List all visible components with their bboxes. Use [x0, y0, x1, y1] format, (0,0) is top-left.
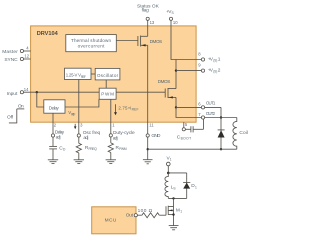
ground at RFREQ	[74, 160, 84, 164]
block 1.25-V VREF	[65, 68, 92, 79]
svg-text:13: 13	[150, 20, 155, 25]
wire junction to D1 branch	[168, 172, 186, 174]
svg-text:BOOT: BOOT	[181, 137, 192, 141]
svg-text:Input: Input	[7, 91, 18, 97]
node ground rail junction	[147, 148, 149, 150]
inductor LS	[165, 173, 177, 199]
svg-text:S: S	[173, 187, 176, 191]
svg-text:Off: Off	[7, 115, 14, 121]
svg-text:REF: REF	[132, 108, 139, 112]
wire VREF vertical from 1.25V box to pin 3	[78, 80, 80, 135]
ground at RPWM	[106, 160, 116, 164]
wire to pin 9	[176, 70, 202, 72]
wire DMOS2 source to OUT1	[175, 97, 177, 107]
block PWM	[99, 88, 116, 99]
svg-text:Duty-cycle: Duty-cycle	[113, 130, 135, 136]
svg-text:adj: adj	[83, 135, 88, 141]
IC U1 DRV104 chip body	[31, 26, 197, 122]
pin 3 terminal osc freq adj	[77, 122, 100, 141]
resistor RPWM	[108, 137, 127, 160]
pin 8 terminal +V(S)1	[198, 51, 221, 62]
svg-text:DMOS: DMOS	[150, 39, 163, 44]
wire delay box to PWM bottom	[65, 99, 99, 107]
svg-text:Master: Master	[2, 49, 18, 55]
node OUT2 junction	[220, 116, 222, 118]
svg-text:1: 1	[170, 158, 172, 162]
svg-text:2.75: 2.75	[118, 106, 128, 111]
svg-text:100 Ω: 100 Ω	[138, 208, 153, 214]
svg-text:4: 4	[26, 45, 29, 50]
svg-text:Delay: Delay	[49, 106, 60, 111]
svg-text:1: 1	[112, 122, 115, 127]
pin 12 terminal SYNC	[4, 54, 30, 64]
svg-text:(S): (S)	[213, 59, 217, 63]
svg-text:adj: adj	[56, 134, 61, 140]
svg-text:Oscillator: Oscillator	[97, 73, 119, 78]
wire bottom rail of LS/D1	[168, 197, 186, 199]
block delay	[44, 100, 65, 113]
svg-text:1: 1	[180, 210, 182, 214]
svg-text:Thermal shutdown: Thermal shutdown	[71, 38, 111, 43]
svg-text:PWM: PWM	[101, 91, 114, 96]
transistor DMOS1 status flag	[116, 36, 162, 47]
svg-text:Coil: Coil	[239, 130, 248, 136]
wire OUT1 to pin 6	[176, 106, 202, 108]
pin 7 terminal OUT2	[198, 111, 215, 119]
svg-text:MCU: MCU	[105, 218, 117, 224]
wire oscillator to PWM	[105, 80, 107, 88]
wire 1.25V box to oscillator	[91, 73, 95, 75]
inductor coil load	[233, 118, 248, 150]
diode flyback	[218, 130, 225, 138]
svg-text:11: 11	[149, 122, 154, 127]
transistor M1	[166, 198, 182, 225]
pin 10 terminal +VS	[166, 9, 178, 25]
svg-text:SYNC: SYNC	[4, 57, 18, 63]
wire V1 to junction	[167, 166, 169, 173]
svg-text:adj: adj	[113, 135, 118, 141]
svg-text:REF: REF	[81, 75, 86, 79]
wire gate to resistor	[159, 214, 166, 216]
pin 14 terminal Input	[7, 87, 29, 97]
svg-text:(S): (S)	[213, 70, 217, 74]
pin 5 terminal CBOOT	[182, 122, 188, 131]
pin 6 terminal OUT1	[198, 101, 216, 110]
svg-text:12: 12	[24, 54, 29, 59]
switch On/Off	[7, 104, 24, 123]
wire pin 13 drain vertical	[147, 20, 149, 36]
svg-text:3: 3	[80, 122, 83, 127]
wire ground rail to coil	[148, 148, 237, 150]
ground at CD	[48, 160, 58, 164]
svg-text:M: M	[176, 208, 180, 214]
pin 4 terminal Master	[2, 45, 30, 55]
resistor RFREQ	[76, 137, 97, 160]
capacitor CD	[49, 137, 66, 160]
terminal V1	[167, 156, 172, 166]
svg-text:PWM: PWM	[119, 147, 127, 151]
node M1 drain junction	[172, 197, 174, 199]
wire PWM to DMOS2 gate	[116, 91, 165, 93]
ground at pin 11	[143, 160, 153, 164]
wire resistor to MCU out	[137, 214, 142, 216]
svg-text:2: 2	[54, 122, 57, 127]
arrow IREF current direction at pin 3	[74, 124, 76, 127]
svg-text:overcurrent: overcurrent	[78, 43, 106, 48]
svg-text:GND: GND	[151, 133, 161, 139]
capacitor CBOOT	[177, 119, 204, 141]
terminal MCU out	[134, 214, 137, 217]
wire DMOS1 source to GND rail	[147, 45, 149, 134]
svg-text:1: 1	[218, 56, 221, 62]
svg-text:OUT1: OUT1	[206, 101, 216, 106]
wire OUT2 internal L to pin 7	[176, 107, 202, 117]
svg-text:2: 2	[218, 68, 221, 74]
wire input junction to delay box	[37, 92, 44, 107]
pin 1 terminal duty-cycle adj	[109, 99, 135, 141]
diode D1	[183, 173, 197, 199]
svg-text:6: 6	[198, 101, 201, 106]
svg-text:9: 9	[198, 62, 201, 67]
wire OUT1 external	[205, 106, 222, 108]
svg-text:10: 10	[173, 20, 178, 25]
block oscillator	[95, 68, 120, 80]
svg-text:S: S	[172, 11, 175, 15]
svg-text:REF: REF	[71, 112, 75, 116]
pin 11 terminal GND	[146, 122, 161, 138]
pin 2 terminal delay adj	[51, 113, 64, 140]
wire pin 10 +VS down and over to pin 8	[171, 20, 202, 59]
svg-text:14: 14	[24, 87, 29, 92]
svg-text:7: 7	[198, 112, 201, 117]
pin 13 terminal	[137, 4, 160, 25]
wire pins 8-9 vertical link	[175, 60, 177, 89]
svg-text:8: 8	[198, 51, 201, 56]
svg-text:D: D	[63, 148, 66, 152]
wire OUT1 vertical through flyback diode	[220, 107, 222, 149]
wire pin 11 to ground rail	[147, 137, 149, 149]
transistor DMOS2 output	[158, 79, 176, 99]
ground at M1 source	[169, 226, 179, 230]
block thermal shutdown overcurrent	[66, 35, 117, 52]
svg-text:OUT2: OUT2	[206, 111, 216, 116]
node diode-rail junction	[220, 148, 222, 150]
svg-text:5: 5	[185, 122, 188, 127]
node input junction	[36, 91, 38, 93]
svg-text:1: 1	[195, 185, 197, 189]
wire input rail to PWM gate row	[23, 91, 99, 93]
node V1 junction	[167, 172, 170, 175]
node OUT1 junction	[175, 106, 177, 108]
node pins 8/9 junction	[175, 69, 177, 71]
MCU block	[92, 207, 136, 234]
svg-text:Out: Out	[126, 212, 134, 218]
svg-text:1.25-V V: 1.25-V V	[66, 73, 81, 78]
resistor 100 ohm	[138, 208, 160, 218]
svg-text:FREQ: FREQ	[89, 147, 98, 151]
svg-text:DMOS: DMOS	[158, 79, 171, 84]
pin 9 terminal +V(S)2	[198, 62, 221, 73]
wire OUT2 external to coil	[205, 117, 237, 119]
svg-text:flag: flag	[142, 8, 150, 14]
svg-text:Osc freq: Osc freq	[83, 130, 101, 136]
svg-text:DRV104: DRV104	[37, 31, 59, 37]
current source arrow 2.75 IREF	[115, 104, 117, 112]
